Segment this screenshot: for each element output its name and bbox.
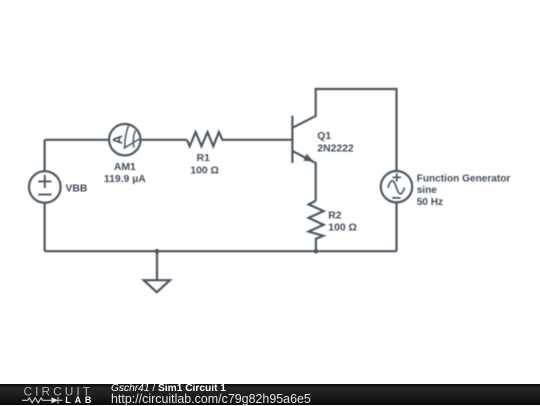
svg-text:VBB: VBB	[66, 183, 88, 194]
svg-text:100 Ω: 100 Ω	[328, 223, 357, 234]
svg-text:100 Ω: 100 Ω	[190, 166, 219, 177]
svg-text:2N2222: 2N2222	[317, 143, 354, 154]
svg-text:LAB: LAB	[65, 395, 95, 405]
svg-text:sine: sine	[417, 185, 438, 196]
svg-text:R2: R2	[328, 211, 342, 222]
svg-text:AM1: AM1	[114, 162, 136, 173]
svg-text:A: A	[110, 134, 125, 144]
svg-text:Function Generator: Function Generator	[417, 174, 511, 185]
svg-text:119.9 µA: 119.9 µA	[104, 174, 146, 185]
svg-text:50 Hz: 50 Hz	[417, 197, 443, 208]
svg-text:R1: R1	[197, 153, 211, 164]
svg-text:Q1: Q1	[317, 131, 331, 142]
